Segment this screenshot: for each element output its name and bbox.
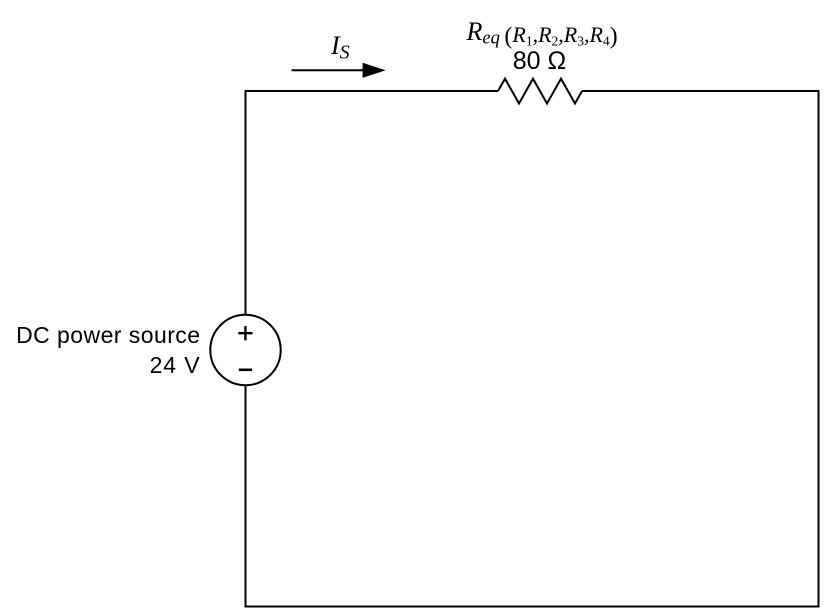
svg-text:Req(R1,R2,R3,R4): Req(R1,R2,R3,R4) xyxy=(466,17,618,50)
svg-text:IS: IS xyxy=(330,31,350,64)
svg-text:24 V: 24 V xyxy=(150,352,201,378)
svg-text:80 Ω: 80 Ω xyxy=(513,47,566,75)
svg-text:DC power source: DC power source xyxy=(16,322,200,348)
